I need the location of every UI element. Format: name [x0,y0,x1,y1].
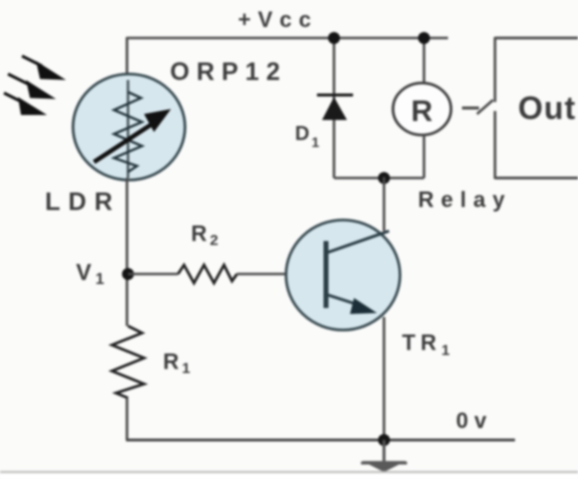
transistor collector line [326,231,389,253]
wire Out box bottom [495,177,578,180]
node collector junction dot [378,172,390,184]
svg-text:TR1: TR1 [402,330,455,359]
svg-text:Relay: Relay [418,187,512,212]
node dot on +Vcc rail (diode) [328,32,340,44]
svg-text:R: R [411,95,433,128]
svg-text:V1: V1 [76,259,108,288]
node dot on +Vcc rail (relay) [418,32,430,44]
wire collector drop [383,177,386,231]
relay coil R [393,83,451,135]
transistor emitter arrowhead [350,298,377,314]
wire Out box vertical lower [494,111,497,179]
wire relay branch from rail [423,38,426,84]
ground stub [383,440,386,461]
wire Out box vertical upper [494,37,497,102]
wire left vertical (LDR branch) [126,37,129,76]
svg-text:ORP12: ORP12 [170,58,287,86]
resistor R1 zigzag [112,326,144,398]
svg-text:R2: R2 [191,221,221,249]
wire LDR to node V1 [126,178,129,326]
svg-text:0v: 0v [456,408,492,433]
wire top +Vcc rail [127,37,448,40]
light arrow 2 [8,74,28,84]
diode D1 cathode bar [317,94,353,97]
separator line bottom [0,471,578,473]
svg-text:+Vcc: +Vcc [238,7,318,32]
diode D1 triangle [322,97,347,120]
wire Out box top [495,37,578,40]
wire emitter drop [383,317,386,440]
light arrow 3 [4,93,20,101]
wire R1 to bottom rail [126,398,129,440]
svg-text:Out: Out [518,90,576,126]
relay contact blade [477,100,493,114]
LDR photoresistor body [73,74,185,180]
ground arrow [362,461,406,472]
wire diode branch from rail [333,38,336,178]
transistor TR1 body [286,220,400,330]
wire V1 to R2 [128,273,178,276]
light arrow 1 [22,56,42,66]
wire relay to connector [423,135,426,178]
LDR internal resistor zigzag [114,92,142,172]
svg-text:LDR: LDR [45,188,120,216]
wire bottom 0v rail [126,439,515,442]
wire connector diode/relay bottoms [334,177,424,180]
svg-text:D1: D1 [295,123,321,150]
transistor emitter line [328,295,362,306]
transistor base bar [324,241,329,308]
node bottom rail junction dot [378,434,390,446]
node V1 junction dot [122,268,134,280]
relay contact dash [462,107,479,110]
LDR arrow [94,124,152,162]
wire through LDR [127,80,130,178]
wire R2 to transistor base [237,273,288,276]
svg-text:R1: R1 [163,349,193,377]
resistor R2 zigzag [178,265,237,283]
